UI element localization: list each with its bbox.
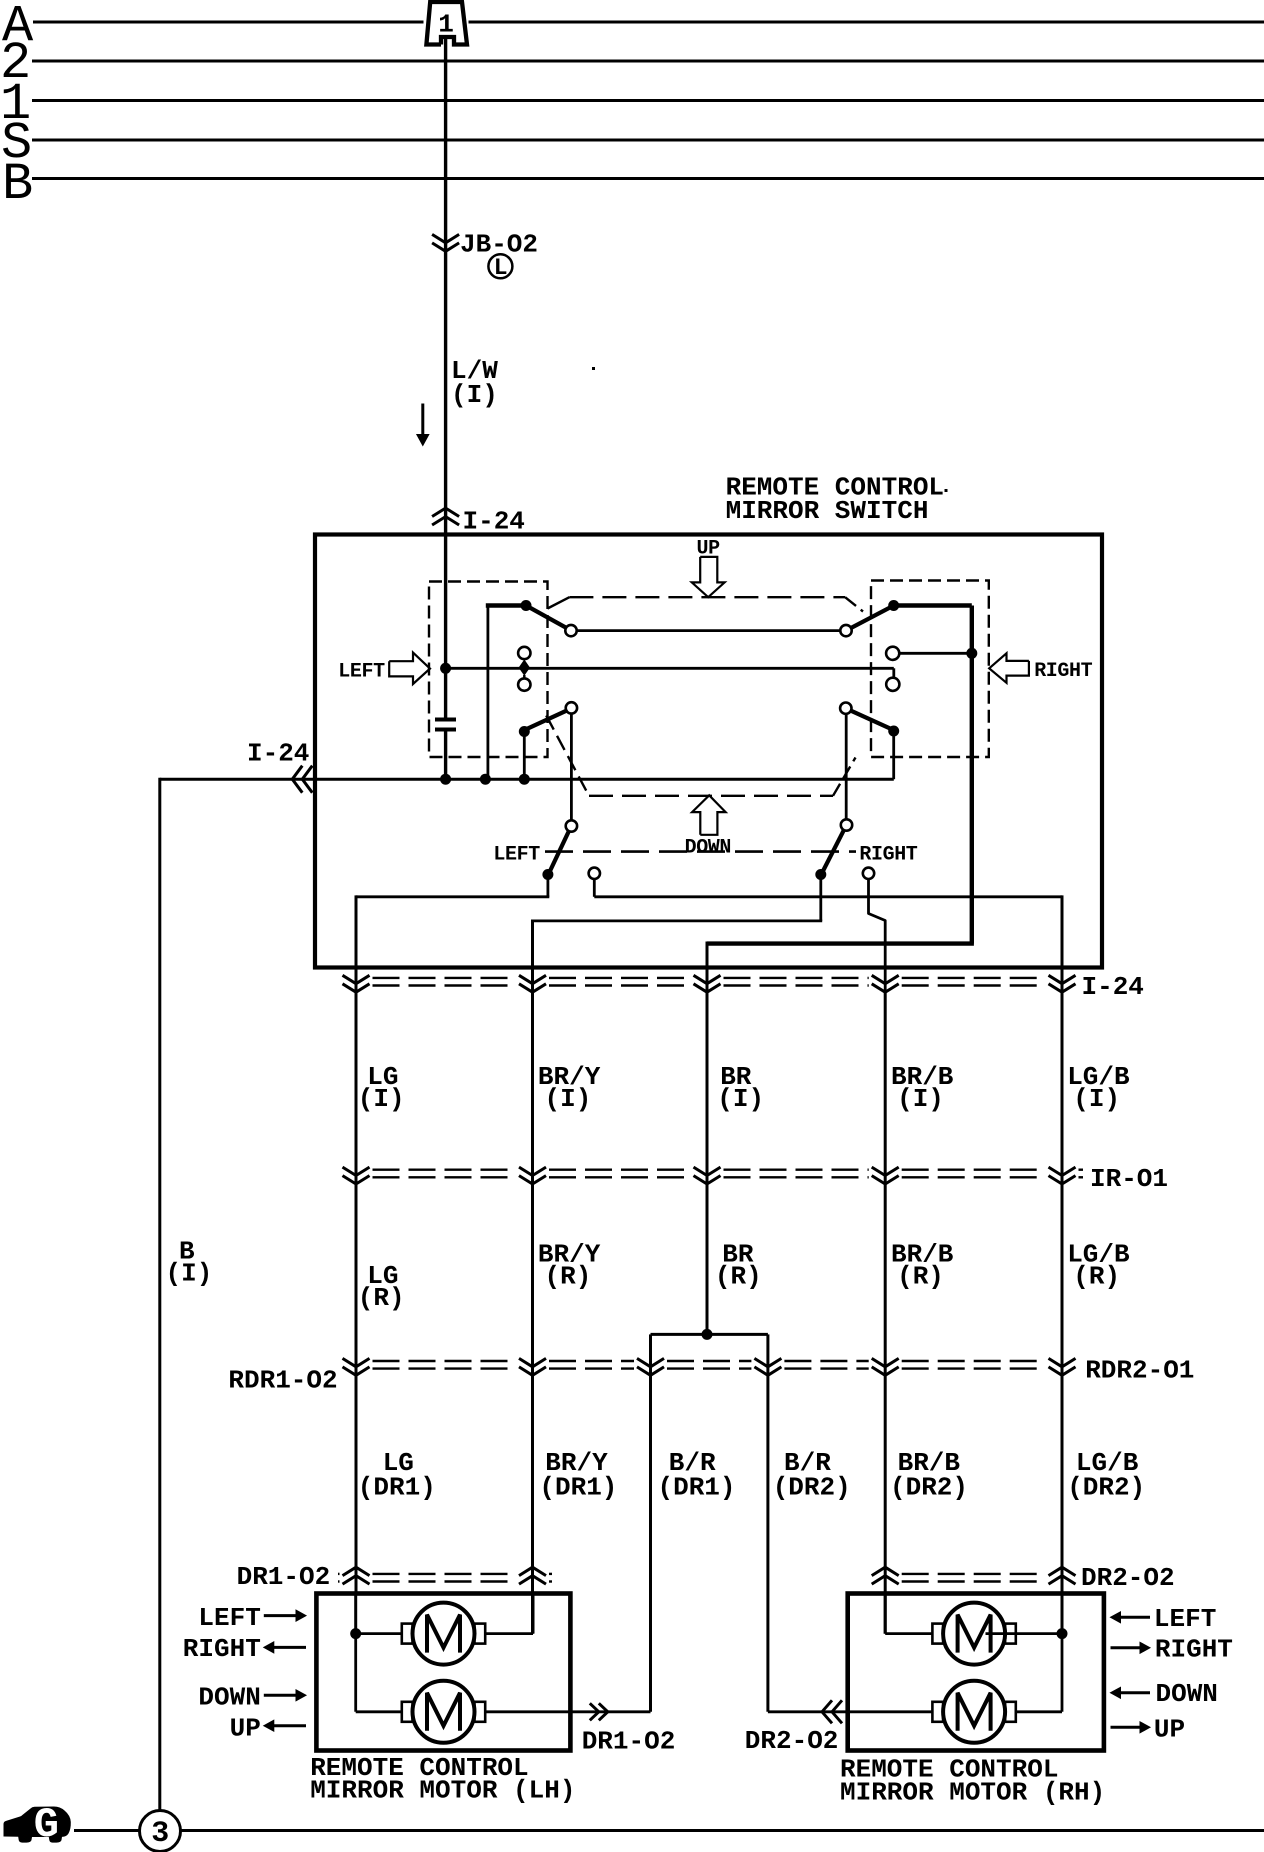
arrow RIGHT out of RH box xyxy=(1111,1646,1143,1649)
motor M2 RH (up/down) xyxy=(932,1702,943,1722)
right center contact circle upper xyxy=(886,647,899,660)
left contact dashed box xyxy=(429,582,548,758)
wire right rocker to RIGHT switch xyxy=(845,714,848,820)
IR-01 row chevron wire 2 xyxy=(519,1167,546,1175)
wire left rocker to LEFT switch xyxy=(570,714,573,821)
svg-text:(I): (I) xyxy=(717,1084,764,1114)
top-left rocker arm xyxy=(526,606,568,629)
wire LEFT common horizontal xyxy=(446,667,894,670)
wire motor2-RH left lead xyxy=(768,1710,933,1713)
RDR row chevron 2 xyxy=(519,1358,546,1366)
RDR row chevron 4 xyxy=(754,1358,781,1366)
wire L/W below plates xyxy=(444,731,447,779)
DR1-02 chevron wire LG xyxy=(343,1576,370,1584)
UP dashed linkage line xyxy=(569,596,845,598)
svg-text:(I): (I) xyxy=(451,380,498,410)
svg-text:IR-O1: IR-O1 xyxy=(1090,1164,1168,1194)
svg-text:(I): (I) xyxy=(897,1084,944,1114)
svg-text:(R): (R) xyxy=(1073,1262,1120,1292)
lower-right rocker contact circle xyxy=(840,703,851,714)
left center contact circle upper xyxy=(518,647,530,659)
I-24 row chevron wire 5 xyxy=(1049,975,1076,983)
connector I-24 entry chevrons xyxy=(432,517,459,525)
I-24 row chevron wire 3 xyxy=(694,975,721,983)
connector row I-24 dashed lines xyxy=(373,977,517,979)
arrow RIGHT out of LH box xyxy=(272,1646,306,1649)
rocker common wire xyxy=(577,629,840,632)
motor M1 LH (left/right) xyxy=(402,1624,413,1644)
svg-text:(DR1): (DR1) xyxy=(358,1473,436,1503)
svg-text:UP: UP xyxy=(230,1714,261,1744)
speck xyxy=(592,367,595,370)
wire 2 BR/Y vertical xyxy=(531,990,534,1634)
DR2-02 chevron wire LG/B xyxy=(1049,1576,1076,1584)
svg-text:UP: UP xyxy=(1154,1715,1185,1745)
wire 5 LG/B vertical xyxy=(1061,990,1064,1634)
BR wire split bar xyxy=(651,1333,768,1336)
motor M1 RH (left/right) xyxy=(932,1624,943,1644)
svg-text:DR1-O2: DR1-O2 xyxy=(582,1727,676,1757)
ground symbol (car body G) xyxy=(4,1807,71,1843)
arrow UP out of LH box xyxy=(272,1724,306,1727)
DOWN dashed linkage line xyxy=(589,795,833,797)
svg-text:LEFT: LEFT xyxy=(493,844,540,867)
svg-text:RIGHT: RIGHT xyxy=(1155,1635,1233,1665)
wire motor2-LH right lead xyxy=(485,1710,650,1713)
svg-text:(I): (I) xyxy=(1073,1084,1120,1114)
svg-text:MIRROR MOTOR (RH): MIRROR MOTOR (RH) xyxy=(840,1778,1105,1808)
direction arrow down xyxy=(421,404,424,437)
svg-text:(R): (R) xyxy=(358,1283,405,1313)
connector I-24 exit chevrons xyxy=(292,766,302,793)
RDR row chevron 3 xyxy=(637,1358,664,1366)
wire B (I) vertical xyxy=(158,778,161,1811)
wire from top-right contact xyxy=(892,603,972,608)
power rail B wire xyxy=(32,177,1264,180)
svg-text:(DR2): (DR2) xyxy=(890,1473,968,1503)
svg-text:I-24: I-24 xyxy=(1082,972,1144,1002)
wire BR/B into RH box xyxy=(884,1594,887,1634)
connector row DR1-02 dashed lines xyxy=(338,1573,340,1575)
wire exit 1 (LG) xyxy=(547,875,550,897)
remote control mirror motor RH box xyxy=(848,1594,1104,1751)
connector row DR2-02 dashed lines xyxy=(902,1573,1046,1575)
svg-text:DR2-O2: DR2-O2 xyxy=(745,1726,839,1756)
wire 4 BR/B vertical xyxy=(884,990,887,1634)
svg-text:(DR1): (DR1) xyxy=(658,1473,736,1503)
svg-text:(I): (I) xyxy=(358,1084,405,1114)
wire 3 BR vertical xyxy=(706,990,709,1334)
LEFT switch contact circle xyxy=(566,820,577,831)
I-24 row chevron wire 1 xyxy=(343,975,370,983)
svg-text:I-24: I-24 xyxy=(463,507,525,537)
arrow DOWN into LH box xyxy=(264,1694,298,1697)
DR1-02 chevron wire BR/Y xyxy=(519,1576,546,1584)
power rail S wire xyxy=(32,139,1264,142)
svg-text:DOWN: DOWN xyxy=(198,1683,260,1713)
svg-text:(R): (R) xyxy=(897,1262,944,1292)
LEFT switch arm xyxy=(550,831,569,871)
svg-text:LEFT: LEFT xyxy=(338,661,385,684)
arrow LEFT into LH box xyxy=(264,1614,298,1617)
remote control mirror switch box xyxy=(315,535,1102,968)
wire LG into LH box xyxy=(354,1594,357,1634)
svg-text:3: 3 xyxy=(151,1817,168,1851)
remote control mirror motor LH box xyxy=(316,1594,570,1751)
left center contact circle lower xyxy=(518,678,530,690)
wire to exit 3 xyxy=(707,941,974,945)
IR-01 row chevron wire 1 xyxy=(343,1167,370,1175)
top-left contact circle xyxy=(565,625,576,636)
RDR row chevron 6 xyxy=(1049,1358,1076,1366)
connector row RDR dashed lines xyxy=(373,1360,517,1362)
contact plates symbol xyxy=(435,718,456,722)
RDR row chevron 5 xyxy=(872,1358,899,1366)
svg-text:G: G xyxy=(34,1801,59,1849)
svg-text:1: 1 xyxy=(438,10,454,40)
junction dot I-24/lower-left contact xyxy=(519,774,530,785)
power rail 2 wire xyxy=(32,60,1264,63)
RDR row chevron 1 xyxy=(343,1358,370,1366)
connector JB-02 chevrons xyxy=(432,234,459,242)
left center diamond contact xyxy=(519,659,530,675)
connector DR2-02 chevrons (horizontal) xyxy=(822,1700,832,1723)
svg-text:DOWN: DOWN xyxy=(1156,1679,1218,1709)
svg-text:RIGHT: RIGHT xyxy=(1034,660,1092,683)
svg-text:(DR2): (DR2) xyxy=(1067,1473,1145,1503)
wire motor1-LH right lead xyxy=(485,1632,533,1635)
circled 3 ground point xyxy=(140,1811,181,1852)
IR-01 row chevron wire 4 xyxy=(872,1167,899,1175)
RIGHT switch contact circle xyxy=(841,819,852,830)
wire circle to right vertical xyxy=(899,652,972,655)
junction dot I-24/top-left wire xyxy=(480,774,491,785)
svg-text:B: B xyxy=(2,155,33,214)
lower-left rocker contact circle xyxy=(566,702,577,713)
svg-text:(DR2): (DR2) xyxy=(773,1473,851,1503)
arrow UP out of RH box xyxy=(1111,1726,1143,1729)
svg-text:(DR1): (DR1) xyxy=(539,1473,617,1503)
RIGHT switch open contact xyxy=(863,868,874,879)
lower-right rocker arm xyxy=(850,710,892,729)
I-24 row chevron wire 2 xyxy=(519,975,546,983)
svg-text:I-24: I-24 xyxy=(247,739,309,769)
svg-text:RDR1-O2: RDR1-O2 xyxy=(228,1366,337,1396)
wire exit 4 (BR/B) xyxy=(869,879,886,990)
arrow LEFT into RH box xyxy=(1119,1616,1151,1619)
svg-text:L: L xyxy=(494,255,508,281)
wire motor1-LH left lead xyxy=(356,1632,402,1635)
RIGHT actuator hollow arrow xyxy=(989,653,1029,683)
wire motor1-RH right lead xyxy=(986,1632,1063,1635)
junction dot LG/motor1 xyxy=(350,1628,361,1639)
top-right contact circle xyxy=(840,625,851,636)
connector row IR-01 dashed lines xyxy=(373,1168,517,1170)
wire from top-left contact xyxy=(486,604,489,780)
UP actuator hollow arrow xyxy=(692,557,725,597)
connector DR1-02 chevrons (horizontal) xyxy=(590,1703,599,1720)
svg-text:LEFT: LEFT xyxy=(1154,1604,1216,1634)
ground bus line xyxy=(74,1829,140,1832)
wire 3b B/R(DR2) vertical xyxy=(766,1363,769,1712)
I-24 row chevron wire 4 xyxy=(872,975,899,983)
svg-text:DR2-O2: DR2-O2 xyxy=(1081,1563,1175,1593)
svg-text:LEFT: LEFT xyxy=(198,1603,260,1633)
svg-text:RIGHT: RIGHT xyxy=(859,844,917,867)
svg-text:(I): (I) xyxy=(545,1084,592,1114)
svg-text:(R): (R) xyxy=(545,1262,592,1292)
svg-text:DR1-O2: DR1-O2 xyxy=(237,1562,331,1592)
wire exit 5 (LG/B) xyxy=(594,895,1062,898)
power rail A wire xyxy=(33,21,424,24)
wire exit 2 (BR/Y) xyxy=(819,875,822,921)
svg-text:(R): (R) xyxy=(715,1262,762,1292)
wire lower-left contact down xyxy=(523,732,526,780)
actuator dashed line lower xyxy=(545,850,856,853)
IR-01 row chevron wire 3 xyxy=(694,1167,721,1175)
right contact dashed box xyxy=(871,581,989,758)
motor M2 LH (up/down) xyxy=(402,1702,413,1722)
label DOWN arrow (hollow, up) xyxy=(692,795,726,835)
RIGHT switch arm xyxy=(823,830,844,871)
speck 2 xyxy=(945,489,948,492)
svg-text:MIRROR MOTOR (LH): MIRROR MOTOR (LH) xyxy=(310,1776,575,1806)
circled L (joint connector) xyxy=(488,254,512,278)
svg-text:(I): (I) xyxy=(166,1259,213,1289)
wire I-24 common line xyxy=(160,778,894,781)
connector 1 (fuse link) on rail A xyxy=(426,2,467,45)
svg-text:MIRROR SWITCH: MIRROR SWITCH xyxy=(726,496,929,526)
IR-01 row chevron wire 5 xyxy=(1049,1167,1076,1175)
wire lower-right contact down xyxy=(892,731,895,779)
svg-text:RIGHT: RIGHT xyxy=(183,1634,261,1664)
junction dot L/W at LEFT wire xyxy=(440,663,451,674)
svg-text:DOWN: DOWN xyxy=(685,837,731,860)
junction dot LG⁄B motor1 RH xyxy=(1057,1628,1068,1639)
DR2-02 chevron wire BR/B xyxy=(872,1576,899,1584)
wire LG to motor2-LH xyxy=(354,1634,357,1712)
junction dot I-24/L-W xyxy=(440,774,451,785)
arrow DOWN into RH box xyxy=(1119,1691,1151,1694)
LEFT switch open contact xyxy=(589,868,600,879)
wire 3a B/R(DR1) vertical xyxy=(649,1363,652,1712)
LEFT actuator hollow arrow xyxy=(389,653,430,684)
wire 1 LG vertical xyxy=(355,990,358,1594)
wire L/W feed vertical from connector 1 xyxy=(444,38,447,718)
power rail 1 wire xyxy=(32,99,1264,102)
svg-text:RDR2-O1: RDR2-O1 xyxy=(1085,1356,1194,1386)
right center contact circle lower xyxy=(886,678,899,691)
wire LG/B into RH box xyxy=(1061,1594,1064,1634)
top-right rocker arm xyxy=(850,606,894,629)
lower-left rocker arm xyxy=(526,710,568,729)
